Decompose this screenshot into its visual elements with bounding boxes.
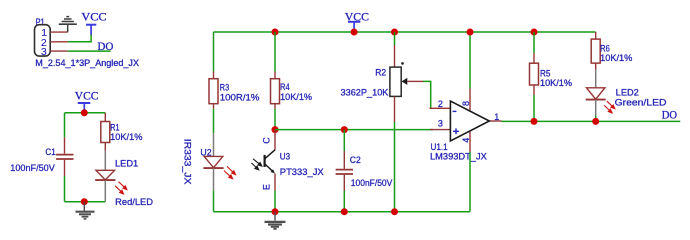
junction R4 / pin3 net xyxy=(272,126,279,133)
svg-text:1: 1 xyxy=(494,112,499,122)
svg-text:3362P_10K: 3362P_10K xyxy=(341,88,389,98)
svg-text:Red/LED: Red/LED xyxy=(115,197,153,207)
capacitor C2 xyxy=(336,130,393,191)
wire C1 bottom xyxy=(64,176,66,202)
svg-text:IR333_JX: IR333_JX xyxy=(182,139,192,185)
wire pin4 to bottom rail xyxy=(469,152,471,212)
svg-text:U2: U2 xyxy=(200,147,211,157)
svg-text:100R/1%: 100R/1% xyxy=(220,92,260,102)
junction VCC C1 block xyxy=(81,109,88,116)
R2 wiper mark xyxy=(401,62,404,65)
junction LED2 output xyxy=(592,118,599,125)
junction C2 top xyxy=(341,126,348,133)
wire top rail C1 block xyxy=(65,112,106,114)
wire R2 top xyxy=(394,32,396,45)
wire pin2 P1 xyxy=(50,41,67,43)
LED2 xyxy=(586,70,667,116)
ground (C1 block) xyxy=(76,202,95,219)
junction R5 output xyxy=(531,118,538,125)
U1 inverting input mark xyxy=(453,110,457,112)
svg-text:R2: R2 xyxy=(375,67,386,77)
svg-text:VCC: VCC xyxy=(75,88,99,102)
wire C2 bottom xyxy=(343,191,345,212)
svg-text:R1: R1 xyxy=(110,123,119,133)
trimmer R2 xyxy=(341,45,424,122)
ground (P1, flipped up) xyxy=(59,17,77,32)
U1 non-inverting input mark xyxy=(453,130,459,132)
wire pin2 to VCC xyxy=(68,35,91,42)
svg-text:10K/1%: 10K/1% xyxy=(110,132,142,142)
svg-text:C2: C2 xyxy=(350,155,361,165)
wire U2 to bottom rail xyxy=(213,191,215,212)
svg-text:C1: C1 xyxy=(45,147,55,157)
wire C1 top xyxy=(64,113,66,137)
svg-text:4: 4 xyxy=(461,138,471,143)
op-amp U1.1 LM393 xyxy=(430,89,502,162)
phototransistor U3 xyxy=(251,130,323,191)
junction VCC main xyxy=(351,29,358,36)
power flag VCC (main) xyxy=(345,9,369,32)
resistor R1 xyxy=(101,113,143,151)
wire R4 top xyxy=(274,32,276,72)
junction U3 emitter rail xyxy=(272,208,279,215)
resistor R5 xyxy=(530,32,573,95)
wire output DO net xyxy=(502,120,681,122)
LED1 xyxy=(95,151,153,207)
svg-text:10K/1%: 10K/1% xyxy=(540,78,572,88)
svg-text:R3: R3 xyxy=(220,83,229,93)
svg-text:R6: R6 xyxy=(600,43,610,53)
wire R4 bottom xyxy=(274,109,276,130)
power flag VCC (C1 block) xyxy=(75,88,99,112)
wire net DO (P1) xyxy=(68,50,111,52)
svg-text:10K/1%: 10K/1% xyxy=(600,53,632,63)
svg-text:10K/1%: 10K/1% xyxy=(280,92,312,102)
U1 triangle body xyxy=(450,101,489,141)
svg-text:100nF/50V: 100nF/50V xyxy=(351,178,393,188)
P1 body xyxy=(35,25,51,56)
resistor R3 xyxy=(209,72,260,109)
svg-text:VCC: VCC xyxy=(81,10,106,24)
U2 emission arrows xyxy=(224,166,236,178)
svg-text:R4: R4 xyxy=(280,82,290,92)
svg-text:2: 2 xyxy=(438,99,443,109)
svg-text:LM393DT_JX: LM393DT_JX xyxy=(430,152,487,162)
junction R4 top xyxy=(272,29,279,36)
wire left rail main xyxy=(213,32,215,72)
svg-text:3: 3 xyxy=(41,46,47,58)
resistor R4 xyxy=(271,72,313,109)
svg-text:100nF/50V: 100nF/50V xyxy=(10,163,54,173)
ground (main) xyxy=(265,212,286,229)
junction pin8 top rail xyxy=(467,29,474,36)
wire bottom rail main xyxy=(214,211,470,213)
wire U3 emitter to rail xyxy=(274,191,276,212)
svg-text:LED2: LED2 xyxy=(616,88,639,98)
wire LED2 to output xyxy=(595,116,597,122)
capacitor C1 xyxy=(10,137,73,176)
R2 wiper arrow xyxy=(402,78,408,85)
wire pin1 P1 xyxy=(50,31,67,33)
svg-text:E: E xyxy=(261,184,271,190)
LED U2 (IR emitter) xyxy=(182,133,235,190)
connector P1 xyxy=(35,17,140,68)
svg-text:M_2.54_1*3P_Angled_JX: M_2.54_1*3P_Angled_JX xyxy=(35,58,139,68)
svg-text:U3: U3 xyxy=(280,152,290,162)
junction GND C1 block xyxy=(81,198,88,205)
resistor R6 xyxy=(591,32,632,70)
wire R5 bottom xyxy=(533,95,535,121)
wire R2 bottom to rail xyxy=(394,122,396,212)
LED1 emission arrows xyxy=(115,182,127,194)
svg-text:LED1: LED1 xyxy=(115,159,138,169)
junction R2 bottom rail xyxy=(391,208,398,215)
junction R5 top xyxy=(531,29,538,36)
wire bottom rail C1 block xyxy=(65,201,106,203)
svg-text:DO: DO xyxy=(662,108,678,122)
wire R3 to U2 xyxy=(213,109,215,133)
svg-text:3: 3 xyxy=(438,119,443,129)
svg-text:Green/LED: Green/LED xyxy=(615,97,667,107)
wire pin3 net xyxy=(275,129,433,131)
wire top rail main xyxy=(214,31,596,33)
svg-text:C: C xyxy=(261,137,271,144)
power flag VCC (P1) xyxy=(81,10,106,36)
junction C2 bottom rail xyxy=(341,208,348,215)
svg-text:PT333_JX: PT333_JX xyxy=(280,167,324,177)
wire R2 wiper to pin2 xyxy=(423,81,431,108)
svg-text:8: 8 xyxy=(461,101,471,106)
LED2 emission arrows xyxy=(604,101,615,113)
wire pin3 P1 xyxy=(50,50,67,52)
junction R2 top xyxy=(391,29,398,36)
wire pin8 to top rail xyxy=(469,32,471,89)
U3 light arrows xyxy=(251,159,262,170)
